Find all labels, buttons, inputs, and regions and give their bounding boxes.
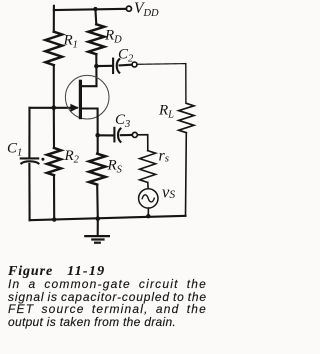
wire R2 bottom lead [53, 175, 55, 219]
node R2 / rail junction [52, 217, 56, 221]
svg-text:RS: RS [107, 158, 123, 176]
svg-text:C1: C1 [7, 141, 22, 159]
transistor Q1 gate arrow [70, 104, 78, 112]
wire RL top lead [185, 64, 187, 104]
wire vs bottom lead [147, 208, 149, 217]
node gate / divider junction [52, 105, 57, 110]
wire RD top lead [94, 9, 97, 24]
wire gate rail [30, 107, 77, 109]
capacitor C2 [113, 59, 119, 73]
wire input link to rs [138, 135, 148, 151]
svg-text:C3: C3 [115, 112, 130, 130]
transistor Q1 channel bar [79, 81, 82, 117]
stray ink dot [41, 158, 44, 161]
wire rs to vs [147, 182, 149, 188]
svg-text:RD: RD [104, 28, 122, 46]
resistor rs [140, 151, 156, 183]
supply terminal VDD [126, 6, 131, 11]
svg-text:C2: C2 [118, 47, 134, 65]
transistor Q1 body circle [65, 75, 109, 119]
caption [8, 262, 207, 328]
resistor RS [89, 154, 106, 185]
capacitor C3 [114, 128, 120, 142]
wire C1 bottom lead [28, 164, 30, 220]
source vs sine [142, 195, 154, 202]
node ground junction [96, 216, 101, 221]
wire C3 left lead [98, 134, 114, 136]
wire RS bottom lead [96, 185, 99, 219]
resistor RD [88, 24, 104, 54]
svg-text:vS: vS [162, 183, 175, 202]
svg-text:VDD: VDD [134, 0, 159, 19]
wire ground rail [30, 216, 186, 220]
wire top supply rail [54, 9, 126, 10]
wire source lead [81, 109, 98, 154]
svg-text:RL: RL [158, 103, 174, 121]
wire R2 top lead [53, 108, 55, 148]
node output terminal (C2) [132, 62, 137, 67]
capacitor C1 [21, 158, 39, 163]
resistor RL [179, 103, 194, 132]
svg-text:R2: R2 [64, 148, 80, 166]
wire RL bottom lead [185, 133, 188, 216]
ground symbol [97, 219, 99, 236]
wire R1 bottom lead [53, 65, 55, 108]
resistor R2 [47, 148, 61, 175]
wire C2 right lead [120, 64, 132, 67]
wire C2 left lead [96, 65, 112, 67]
node vs / rail junction [146, 214, 150, 218]
wire drain lead [81, 54, 97, 86]
svg-text:rs: rs [159, 148, 170, 165]
source vs circle [139, 189, 158, 208]
junction dots [41, 7, 150, 222]
wire dashed link to RL [137, 63, 186, 66]
wire R1 top lead [53, 6, 55, 32]
node source / C3 junction [95, 133, 100, 138]
wire C1 top lead [28, 108, 30, 157]
node input terminal (C3) [132, 132, 137, 137]
node drain / C2 junction [94, 64, 99, 69]
node VDD rail / RD junction [93, 7, 97, 11]
svg-text:R1: R1 [63, 33, 78, 51]
resistor R1 [46, 32, 63, 65]
wire C3 right lead [121, 134, 132, 136]
